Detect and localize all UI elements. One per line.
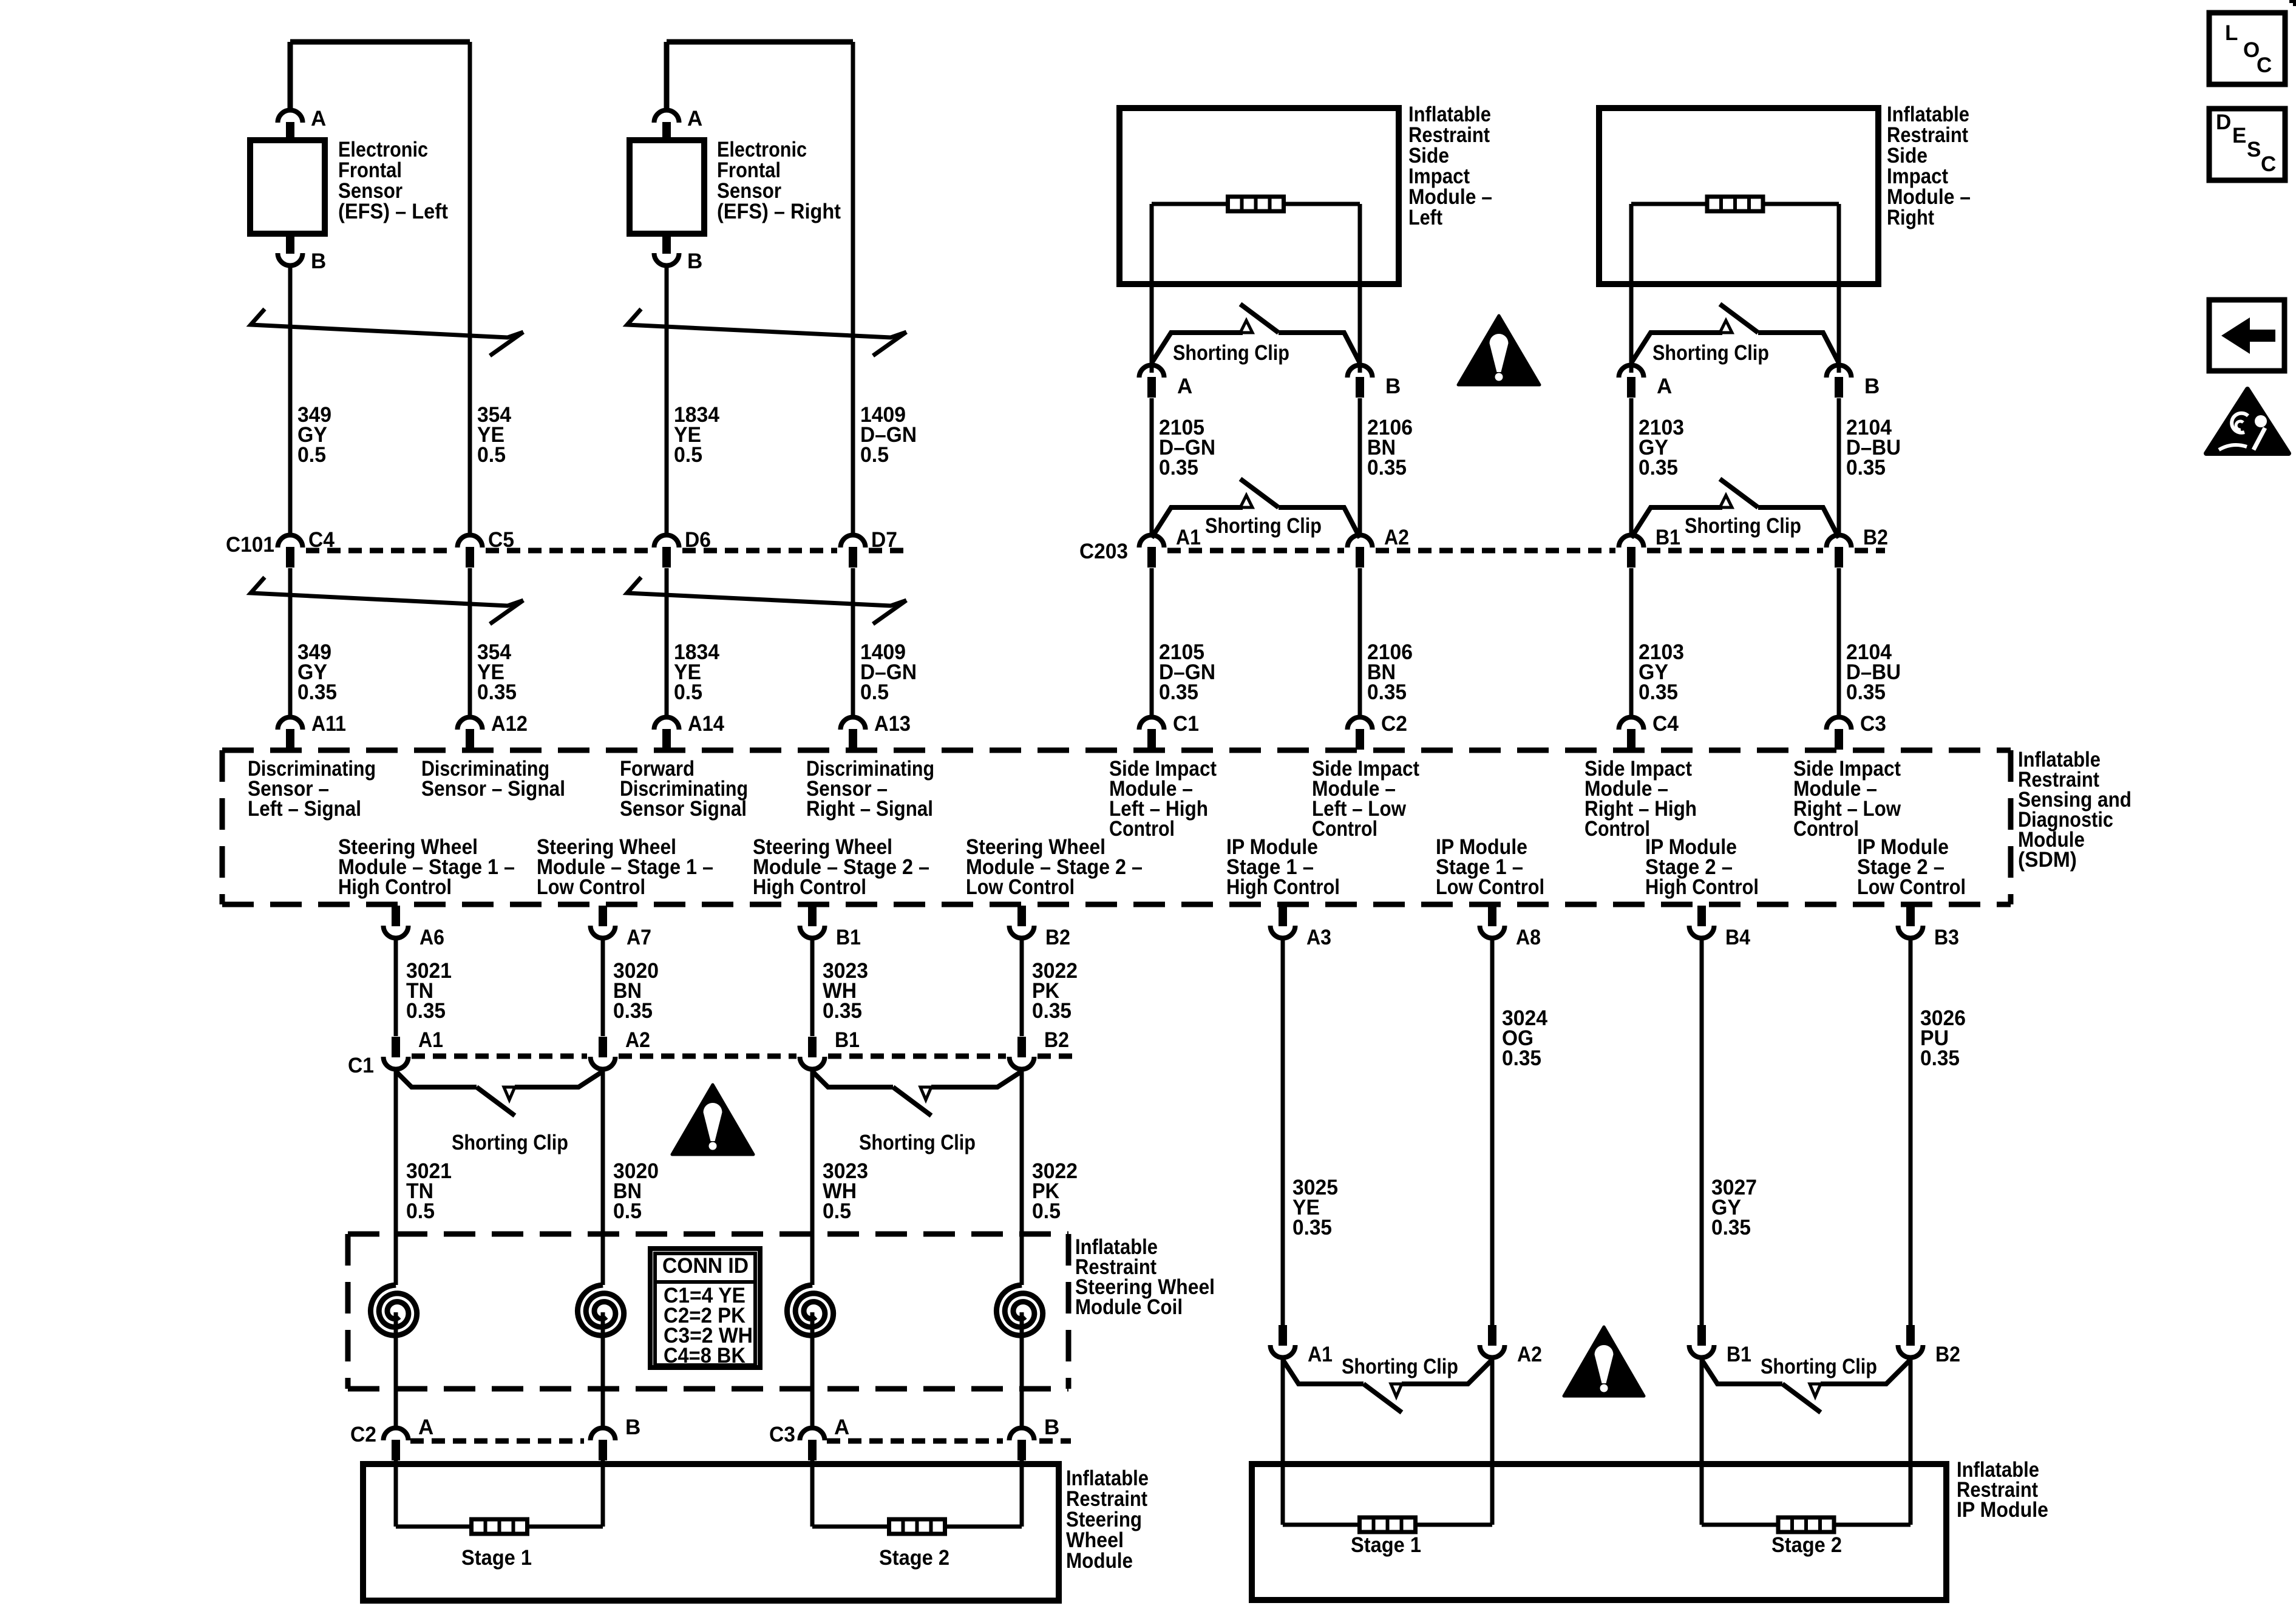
svg-text:0.5: 0.5 bbox=[1032, 1199, 1061, 1223]
svg-text:S: S bbox=[2247, 138, 2261, 161]
svg-text:0.35: 0.35 bbox=[823, 999, 862, 1023]
svg-text:CONN ID: CONN ID bbox=[662, 1254, 749, 1278]
svg-text:B1: B1 bbox=[835, 1028, 860, 1052]
svg-text:A14: A14 bbox=[688, 712, 724, 736]
svg-text:High Control: High Control bbox=[338, 875, 452, 899]
svg-text:B2: B2 bbox=[1045, 926, 1070, 949]
svg-text:(EFS) – Right: (EFS) – Right bbox=[717, 200, 841, 223]
svg-text:A12: A12 bbox=[491, 712, 528, 736]
svg-text:Shorting Clip: Shorting Clip bbox=[1205, 514, 1322, 538]
svg-text:0.5: 0.5 bbox=[823, 1199, 851, 1223]
svg-text:A: A bbox=[1177, 375, 1192, 398]
svg-text:A: A bbox=[1657, 375, 1672, 398]
svg-text:Shorting Clip: Shorting Clip bbox=[1342, 1355, 1458, 1378]
svg-text:B: B bbox=[625, 1415, 640, 1439]
svg-text:A3: A3 bbox=[1306, 926, 1331, 949]
svg-text:A: A bbox=[834, 1415, 849, 1439]
svg-text:A7: A7 bbox=[627, 926, 651, 949]
svg-text:0.5: 0.5 bbox=[674, 680, 702, 704]
svg-text:0.5: 0.5 bbox=[674, 443, 702, 467]
svg-text:0.35: 0.35 bbox=[1711, 1216, 1751, 1239]
svg-text:0.35: 0.35 bbox=[1159, 680, 1198, 704]
svg-text:A1: A1 bbox=[418, 1028, 443, 1052]
svg-text:B1: B1 bbox=[836, 926, 861, 949]
svg-text:A: A bbox=[418, 1415, 433, 1439]
svg-text:Control: Control bbox=[1584, 817, 1650, 841]
svg-text:D6: D6 bbox=[685, 528, 711, 552]
svg-text:0.35: 0.35 bbox=[1032, 999, 1072, 1023]
svg-text:Low Control: Low Control bbox=[1857, 875, 1966, 899]
svg-text:B2: B2 bbox=[1863, 526, 1888, 549]
svg-text:B3: B3 bbox=[1934, 926, 1959, 949]
svg-text:A2: A2 bbox=[1517, 1343, 1542, 1366]
svg-text:Stage 1: Stage 1 bbox=[461, 1546, 532, 1570]
svg-text:B: B bbox=[1864, 375, 1880, 398]
svg-text:B: B bbox=[1385, 375, 1401, 398]
svg-text:C3: C3 bbox=[769, 1423, 795, 1446]
svg-text:B: B bbox=[311, 249, 326, 273]
svg-text:Right – Signal: Right – Signal bbox=[806, 797, 933, 821]
svg-text:C4=8 BK: C4=8 BK bbox=[664, 1344, 746, 1368]
svg-text:Sensor Signal: Sensor Signal bbox=[620, 797, 747, 821]
svg-text:Left: Left bbox=[1408, 206, 1442, 229]
svg-text:D: D bbox=[2216, 110, 2231, 134]
svg-text:0.35: 0.35 bbox=[1367, 456, 1407, 480]
svg-text:Shorting Clip: Shorting Clip bbox=[452, 1131, 568, 1154]
svg-text:A1: A1 bbox=[1176, 526, 1201, 549]
svg-text:C: C bbox=[2257, 53, 2272, 77]
svg-text:High Control: High Control bbox=[1645, 875, 1759, 899]
svg-text:A11: A11 bbox=[311, 712, 346, 736]
svg-text:(SDM): (SDM) bbox=[2018, 848, 2077, 872]
svg-text:A1: A1 bbox=[1308, 1343, 1333, 1366]
svg-text:A: A bbox=[311, 107, 326, 131]
svg-text:C1: C1 bbox=[348, 1054, 374, 1077]
svg-text:B1: B1 bbox=[1727, 1343, 1751, 1366]
svg-text:0.35: 0.35 bbox=[613, 999, 653, 1023]
svg-text:C2: C2 bbox=[1381, 712, 1407, 736]
svg-text:C101: C101 bbox=[226, 533, 274, 557]
svg-text:C2: C2 bbox=[350, 1423, 376, 1446]
svg-text:Low Control: Low Control bbox=[966, 875, 1075, 899]
svg-text:C5: C5 bbox=[488, 528, 514, 552]
svg-text:High Control: High Control bbox=[1226, 875, 1340, 899]
svg-text:0.35: 0.35 bbox=[406, 999, 446, 1023]
svg-text:A2: A2 bbox=[625, 1028, 650, 1052]
svg-text:Shorting Clip: Shorting Clip bbox=[1652, 341, 1769, 365]
svg-text:Module: Module bbox=[1066, 1549, 1133, 1573]
svg-text:0.5: 0.5 bbox=[613, 1199, 642, 1223]
svg-text:C4: C4 bbox=[1652, 712, 1679, 736]
svg-text:C3: C3 bbox=[1860, 712, 1886, 736]
svg-text:C4: C4 bbox=[308, 528, 335, 552]
svg-text:Control: Control bbox=[1312, 817, 1377, 841]
svg-text:0.35: 0.35 bbox=[1159, 456, 1198, 480]
svg-text:(EFS) – Left: (EFS) – Left bbox=[338, 200, 448, 223]
svg-text:A: A bbox=[687, 107, 702, 131]
svg-text:High Control: High Control bbox=[753, 875, 866, 899]
svg-text:A13: A13 bbox=[874, 712, 911, 736]
svg-text:Shorting Clip: Shorting Clip bbox=[1685, 514, 1801, 538]
svg-text:0.35: 0.35 bbox=[1920, 1046, 1960, 1070]
svg-text:Module Coil: Module Coil bbox=[1075, 1295, 1183, 1319]
svg-text:C: C bbox=[2261, 152, 2276, 176]
svg-text:Control: Control bbox=[1793, 817, 1859, 841]
svg-text:B2: B2 bbox=[1935, 1343, 1960, 1366]
svg-text:C203: C203 bbox=[1079, 540, 1128, 563]
svg-text:B: B bbox=[1044, 1415, 1059, 1439]
svg-text:L: L bbox=[2225, 21, 2238, 45]
svg-text:Shorting Clip: Shorting Clip bbox=[1173, 341, 1289, 365]
svg-text:0.35: 0.35 bbox=[1502, 1046, 1541, 1070]
svg-text:C1: C1 bbox=[1173, 712, 1199, 736]
svg-text:D7: D7 bbox=[871, 528, 897, 552]
svg-text:0.35: 0.35 bbox=[1846, 680, 1886, 704]
svg-text:0.35: 0.35 bbox=[1639, 680, 1678, 704]
svg-text:B: B bbox=[687, 249, 702, 273]
svg-text:Shorting Clip: Shorting Clip bbox=[1761, 1355, 1877, 1378]
svg-text:Low Control: Low Control bbox=[1436, 875, 1544, 899]
svg-text:A6: A6 bbox=[419, 926, 444, 949]
svg-text:A8: A8 bbox=[1516, 926, 1541, 949]
svg-text:A2: A2 bbox=[1384, 526, 1409, 549]
svg-text:0.35: 0.35 bbox=[1639, 456, 1678, 480]
svg-text:0.35: 0.35 bbox=[297, 680, 337, 704]
svg-text:0.5: 0.5 bbox=[860, 443, 889, 467]
svg-text:IP Module: IP Module bbox=[1957, 1498, 2048, 1522]
svg-text:B2: B2 bbox=[1044, 1028, 1069, 1052]
svg-text:E: E bbox=[2232, 124, 2246, 147]
svg-text:0.5: 0.5 bbox=[477, 443, 506, 467]
svg-text:B4: B4 bbox=[1725, 926, 1750, 949]
svg-text:0.35: 0.35 bbox=[1846, 456, 1886, 480]
svg-text:0.35: 0.35 bbox=[1367, 680, 1407, 704]
svg-text:0.35: 0.35 bbox=[1292, 1216, 1332, 1239]
svg-text:Low Control: Low Control bbox=[537, 875, 645, 899]
svg-text:Right: Right bbox=[1887, 206, 1934, 229]
svg-text:0.35: 0.35 bbox=[477, 680, 517, 704]
svg-text:Stage 2: Stage 2 bbox=[879, 1546, 949, 1570]
svg-text:Shorting Clip: Shorting Clip bbox=[859, 1131, 976, 1154]
svg-text:0.5: 0.5 bbox=[406, 1199, 435, 1223]
svg-text:0.5: 0.5 bbox=[297, 443, 326, 467]
svg-text:Stage 2: Stage 2 bbox=[1771, 1533, 1842, 1557]
svg-text:Left – Signal: Left – Signal bbox=[248, 797, 361, 821]
svg-text:Stage 1: Stage 1 bbox=[1351, 1533, 1421, 1557]
svg-text:Control: Control bbox=[1109, 817, 1175, 841]
svg-text:0.5: 0.5 bbox=[860, 680, 889, 704]
svg-text:B1: B1 bbox=[1656, 526, 1680, 549]
svg-text:Sensor – Signal: Sensor – Signal bbox=[421, 777, 565, 801]
